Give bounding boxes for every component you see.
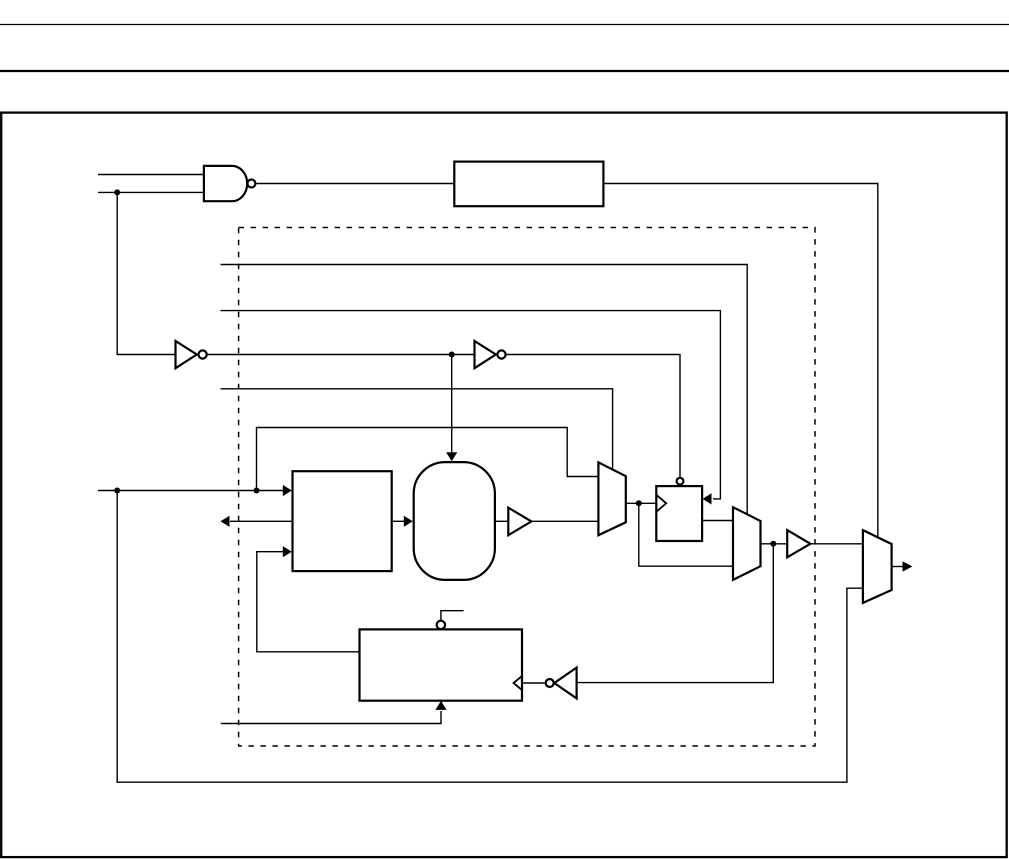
wire nand input A xyxy=(98,174,204,176)
arrowhead pointing left xyxy=(221,516,230,527)
wire output arrow to the left xyxy=(230,520,293,522)
big latch reset bubble xyxy=(437,621,445,629)
arrowhead into flip-flop right side xyxy=(703,493,712,504)
wire feedback bypass to mux 2 xyxy=(639,503,733,566)
wire input line 4 to mux 1 left xyxy=(257,428,599,491)
wire input line 1 to mux 2 xyxy=(221,265,748,515)
inverter 2 xyxy=(475,341,506,368)
wire big latch reset stub xyxy=(441,611,464,621)
wire bottom input to big latch xyxy=(221,711,441,724)
arrowhead into control block lower input xyxy=(283,546,292,557)
wire input line 2 to flip-flop right side xyxy=(221,311,721,499)
wire delay block output to right then down to output mux xyxy=(603,184,877,538)
wire mux 2 output to buffer 2 xyxy=(761,543,788,545)
wire from junction down to inverter 1 xyxy=(117,192,175,354)
flip-flop xyxy=(656,486,702,541)
wire inverter 3 output to big latch clock xyxy=(522,682,545,684)
arrowhead up into big latch bottom xyxy=(435,701,446,710)
wire counter oval to buffer 1 xyxy=(495,520,509,522)
wire branch down to counter oval xyxy=(451,355,453,454)
wire control block to counter oval xyxy=(392,520,405,522)
mux 2 xyxy=(733,507,761,580)
wire mux 1 output to flip-flop xyxy=(626,502,657,504)
flip-flop clock wedge xyxy=(656,495,666,512)
arrowhead into control block input xyxy=(283,485,292,496)
junction main input left xyxy=(114,488,120,494)
wire buffer 1 to mux 1 xyxy=(531,520,598,522)
buffer 2 xyxy=(787,530,810,557)
buffer 1 xyxy=(508,508,531,536)
page header rule bottom xyxy=(0,70,1009,72)
nand gate xyxy=(204,166,256,201)
junction mux 2 output xyxy=(770,541,776,547)
wire inverter 1 output to inverter 2 xyxy=(207,354,474,356)
arrowhead into counter oval top xyxy=(446,452,457,461)
arrowhead into counter oval xyxy=(404,516,413,527)
wire nand input B xyxy=(98,191,204,193)
wire buffer 2 to output mux xyxy=(810,543,863,545)
counter oval xyxy=(414,462,495,580)
output mux xyxy=(863,530,892,603)
big latch xyxy=(360,629,523,700)
wire mux 2 output down to inverter 3 xyxy=(577,544,773,683)
wire input line 3 to mux 1 top xyxy=(221,389,613,470)
mux 1 xyxy=(598,462,625,535)
page header rule top xyxy=(0,24,1009,26)
wire flip-flop output to mux 2 xyxy=(702,520,733,522)
wire nand output to delay block xyxy=(256,183,454,185)
wire main input to control block xyxy=(98,490,290,492)
junction main input right xyxy=(254,488,260,494)
control block xyxy=(293,471,392,571)
big latch clock wedge xyxy=(514,676,523,690)
wire long feedback left rail to output mux xyxy=(117,491,863,783)
wire output mux to output arrow xyxy=(892,566,903,568)
wire big latch output to control block xyxy=(257,552,360,652)
junction on inverter wire xyxy=(449,352,455,358)
dashed boundary box xyxy=(239,228,815,747)
junction mux 1 output xyxy=(636,500,642,506)
wire inverter 2 output down to flip-flop preset bubble xyxy=(506,355,680,478)
inverter 1 xyxy=(176,341,207,368)
delay block xyxy=(454,162,603,207)
junction on nand input B xyxy=(114,189,120,195)
arrowhead final output xyxy=(903,561,913,572)
inverter 3 pointing left xyxy=(546,668,577,699)
flip-flop preset bubble xyxy=(677,478,684,485)
